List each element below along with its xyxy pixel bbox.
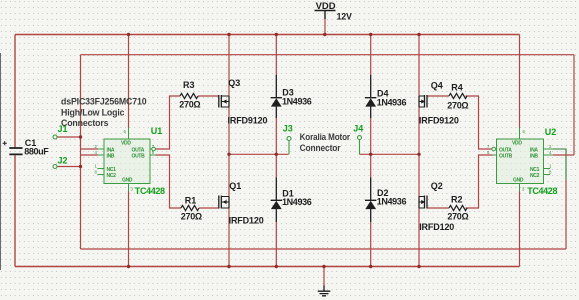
svg-text:IRFD120: IRFD120 bbox=[229, 215, 264, 225]
op-amp U2 TC4428 box bbox=[497, 139, 544, 184]
svg-text:R1: R1 bbox=[185, 195, 197, 205]
svg-text:270Ω: 270Ω bbox=[447, 212, 468, 222]
svg-text:U2: U2 bbox=[545, 127, 557, 137]
svg-text:Q4: Q4 bbox=[431, 81, 443, 91]
wire J2 to U1 INB bbox=[57, 155, 98, 167]
svg-text:270Ω: 270Ω bbox=[447, 101, 468, 111]
svg-text:High/Low Logic: High/Low Logic bbox=[61, 108, 125, 118]
diode D3 1N4936 bbox=[271, 75, 282, 118]
svg-text:J2: J2 bbox=[58, 155, 68, 165]
junction dots top bus bbox=[127, 33, 421, 36]
svg-text:1N4936: 1N4936 bbox=[377, 196, 407, 206]
wire U2 GND pin column bbox=[519, 192, 521, 267]
svg-text:3: 3 bbox=[522, 187, 525, 192]
svg-text:J4: J4 bbox=[353, 124, 363, 134]
wire left FET column (Q3/Q1 drain rail) bbox=[228, 35, 230, 267]
U1 OUTA bubble bbox=[152, 147, 156, 151]
svg-text:IRFD9120: IRFD9120 bbox=[228, 115, 268, 125]
svg-text:4: 4 bbox=[95, 150, 98, 155]
svg-text:IRFD120: IRFD120 bbox=[419, 222, 454, 232]
svg-text:7: 7 bbox=[487, 144, 490, 149]
wire R2 to U2 OUTB bbox=[466, 155, 493, 208]
svg-text:Q2: Q2 bbox=[431, 181, 443, 191]
junction dots bottom bus bbox=[127, 265, 421, 268]
wire ground stem bbox=[323, 267, 325, 287]
diode D1 1N4936 bbox=[271, 177, 282, 222]
svg-text:OUTB: OUTB bbox=[499, 153, 513, 159]
op-amp U1 TC4428 box bbox=[104, 139, 150, 184]
transistor Q4 IRFD9120 bbox=[419, 95, 427, 108]
wire logic rail bottom (J2 net) bbox=[81, 248, 567, 250]
svg-text:dsPIC33FJ256MC710: dsPIC33FJ256MC710 bbox=[61, 96, 147, 106]
svg-text:5: 5 bbox=[487, 150, 490, 155]
svg-text:TC4428: TC4428 bbox=[527, 186, 557, 196]
sheet border left edge bbox=[0, 53, 2, 270]
svg-text:8: 8 bbox=[95, 170, 98, 175]
transistor Q2 IRFD120 bbox=[419, 196, 427, 209]
connector J3 bbox=[287, 137, 291, 141]
svg-text:Connector: Connector bbox=[300, 143, 341, 153]
svg-text:2: 2 bbox=[95, 144, 98, 149]
svg-text:INB: INB bbox=[530, 153, 538, 159]
ground symbol bbox=[318, 286, 331, 296]
resistor R1 bbox=[181, 205, 199, 210]
wire VDD symbol stem bbox=[324, 19, 326, 35]
svg-text:Q1: Q1 bbox=[229, 181, 241, 191]
svg-text:880uF: 880uF bbox=[24, 147, 49, 157]
VDD power symbol bbox=[315, 11, 336, 20]
svg-text:R2: R2 bbox=[451, 194, 463, 204]
svg-text:VDD: VDD bbox=[316, 1, 337, 11]
svg-text:IRFD9120: IRFD9120 bbox=[419, 115, 459, 125]
wire left vertical rail (VDD to GND via C1) bbox=[14, 35, 16, 267]
wire Q2 gate to R2 bbox=[427, 207, 449, 209]
connector J1 bbox=[53, 135, 57, 139]
svg-text:VDD: VDD bbox=[512, 141, 522, 147]
capacitor C1 bbox=[9, 148, 22, 154]
wire J1/J2 vertical bbox=[80, 55, 82, 249]
svg-text:1: 1 bbox=[549, 164, 552, 169]
svg-text:Connectors: Connectors bbox=[61, 118, 109, 128]
svg-text:R4: R4 bbox=[451, 83, 463, 93]
wire J1 to U1 INA bbox=[57, 137, 98, 149]
svg-text:J3: J3 bbox=[283, 124, 293, 134]
junction dots output nodes bbox=[227, 153, 420, 156]
svg-text:U1: U1 bbox=[151, 126, 163, 136]
svg-text:INB: INB bbox=[107, 153, 115, 159]
U1 pin stubs bbox=[98, 128, 156, 192]
wire logic rail top (J1 net) bbox=[81, 54, 575, 56]
svg-text:6: 6 bbox=[523, 129, 526, 134]
svg-text:6: 6 bbox=[124, 129, 127, 134]
wire top VDD bus bbox=[15, 34, 520, 36]
U2 pin stubs bbox=[493, 128, 554, 192]
connector J2 bbox=[53, 165, 57, 169]
svg-text:3: 3 bbox=[131, 187, 134, 192]
wire U1 VDD pin column bbox=[128, 35, 130, 129]
svg-text:1N4936: 1N4936 bbox=[282, 197, 312, 207]
wire U2 VDD pin column bbox=[519, 35, 521, 129]
svg-text:8: 8 bbox=[549, 170, 552, 175]
resistor R4 bbox=[449, 93, 467, 98]
svg-text:GND: GND bbox=[513, 178, 524, 184]
svg-text:1: 1 bbox=[95, 164, 98, 169]
transistor Q1 IRFD120 bbox=[219, 196, 229, 209]
resistor R3 bbox=[180, 93, 198, 98]
wire R1 to Q1 gate bbox=[199, 207, 219, 209]
svg-text:Q3: Q3 bbox=[228, 78, 240, 88]
wire U2 INA to J2 rail bbox=[553, 149, 566, 180]
wire right FET column (Q4/Q2 drain rail) bbox=[418, 35, 420, 267]
resistor R2 bbox=[449, 205, 467, 210]
wire left output node to J3 bbox=[229, 153, 289, 155]
diode D4 1N4936 bbox=[365, 75, 376, 118]
wire R4 to U2 OUTA bbox=[466, 96, 493, 149]
wire U2 INB to J1 rail bbox=[553, 55, 574, 155]
svg-text:R3: R3 bbox=[183, 80, 195, 90]
connector J4 bbox=[358, 136, 362, 140]
svg-text:1N4936: 1N4936 bbox=[377, 98, 407, 108]
transistor Q3 IRFD9120 bbox=[219, 95, 229, 108]
wire U1 GND pin column bbox=[128, 192, 130, 267]
svg-text:12V: 12V bbox=[337, 12, 352, 22]
svg-text:OUTB: OUTB bbox=[132, 153, 146, 159]
svg-text:NC2: NC2 bbox=[530, 173, 540, 179]
junction dots J1 J2 bbox=[79, 135, 82, 168]
wire left diode column red parts bbox=[275, 35, 277, 267]
svg-text:VDD: VDD bbox=[121, 141, 131, 147]
U2 OUTA bubble bbox=[492, 147, 496, 151]
wire Q4 gate to R4 bbox=[427, 95, 449, 97]
svg-text:270Ω: 270Ω bbox=[181, 212, 202, 222]
wire R3 to Q3 gate bbox=[198, 95, 219, 97]
wire right diode column red parts bbox=[370, 35, 372, 267]
svg-text:4: 4 bbox=[549, 150, 552, 155]
svg-text:Koralia Motor: Koralia Motor bbox=[300, 132, 351, 142]
wire right output node to J4 bbox=[360, 153, 420, 155]
wire U1 OUTB to R1 bbox=[155, 155, 181, 208]
diode D2 1N4936 bbox=[365, 177, 376, 222]
wire bottom GND bus bbox=[15, 266, 520, 268]
svg-text:270Ω: 270Ω bbox=[179, 100, 200, 110]
wire U1 OUTA to R3 bbox=[155, 96, 180, 149]
svg-text:TC4428: TC4428 bbox=[135, 186, 165, 196]
svg-text:2: 2 bbox=[549, 144, 552, 149]
svg-text:GND: GND bbox=[122, 178, 133, 184]
svg-text:1N4936: 1N4936 bbox=[282, 97, 312, 107]
svg-text:NC2: NC2 bbox=[107, 173, 117, 179]
